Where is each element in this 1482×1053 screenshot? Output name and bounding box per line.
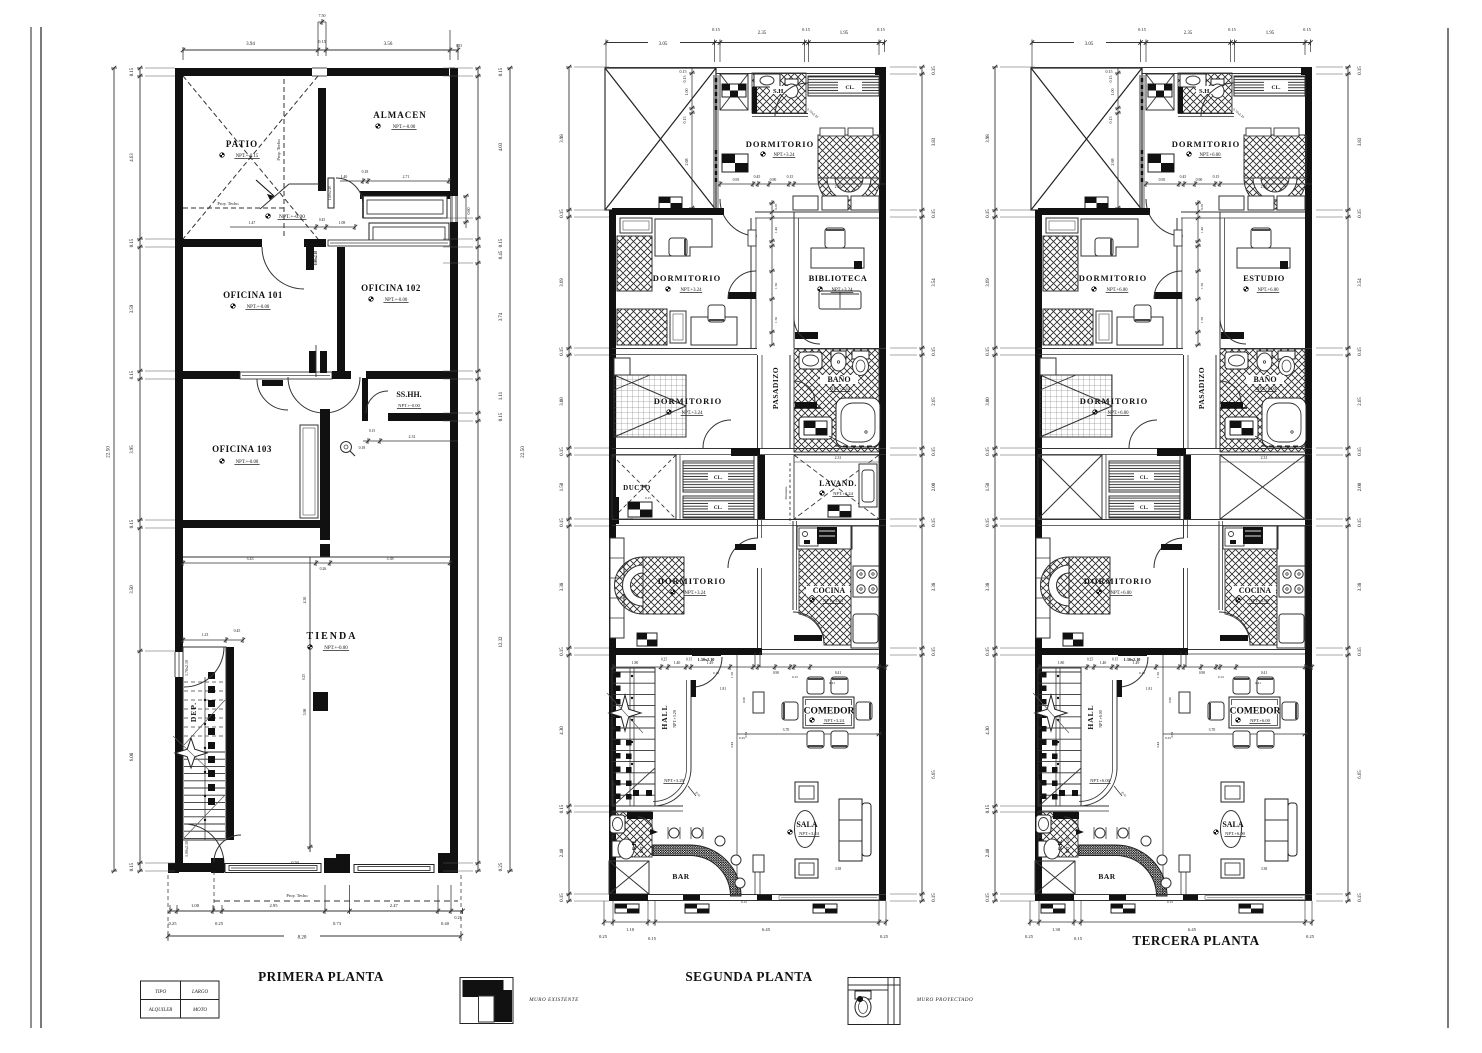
svg-text:NPT.+3.29: NPT.+3.29 [672,710,677,728]
sh bottom label door [627,812,653,819]
svg-text:SEGUNDA PLANTA: SEGUNDA PLANTA [685,969,812,984]
dorm4 door label [1161,544,1182,550]
svg-text:0.15: 0.15 [318,39,325,44]
dim stair top [183,639,243,641]
svg-text:6.08: 6.08 [130,752,135,761]
comedor chairs [807,677,824,694]
cocina door arc [1219,612,1250,643]
svg-text:PATIO: PATIO [226,139,258,149]
svg-text:S.H.: S.H. [632,839,638,851]
svg-text:7.50: 7.50 [319,13,326,18]
svg-text:1.50: 1.50 [1200,283,1204,289]
biblioteca door sill [795,332,818,339]
svg-text:3.38: 3.38 [560,582,565,591]
interior dim chain x-void [691,68,693,210]
closet right wall [1179,455,1181,519]
svg-text:0.73: 0.73 [333,921,342,926]
dorm4 closet left [610,538,624,638]
svg-text:DEP.: DEP. [189,702,198,722]
left dim chain plan1 [139,68,141,871]
wall left thin upper [604,68,606,210]
svg-text:CL.: CL. [1271,85,1281,91]
svg-text:2.68: 2.68 [684,159,689,166]
door arc ss hh [366,391,388,413]
svg-text:0.15: 0.15 [986,518,991,527]
svg-text:PASADIZO: PASADIZO [1197,367,1206,409]
dorm3 right wall / corridor left lower [757,355,759,448]
x-void box top-left [605,68,716,210]
svg-text:0.15: 0.15 [645,496,651,500]
S.H. floor hatch [1178,73,1232,113]
svg-text:0.15: 0.15 [560,518,565,527]
top dim chain plan1 [183,49,458,51]
svg-text:3.00: 3.00 [560,397,565,406]
wall central vertical tienda [320,409,330,540]
svg-text:CL.: CL. [714,476,723,481]
legend muro proyectado icon [848,978,900,1025]
svg-text:ALMACEN: ALMACEN [373,110,427,120]
bano door arc [1220,381,1241,402]
hall curved wall [1112,680,1114,768]
svg-text:0.18: 0.18 [1139,671,1145,675]
svg-text:0.15: 0.15 [1358,647,1363,656]
wall top exterior [175,68,312,76]
svg-text:3.00: 3.00 [986,397,991,406]
svg-text:3.54: 3.54 [1358,278,1363,287]
door sill bottom entry [211,858,224,873]
desk dormitorio top [722,154,748,172]
svg-text:3.38: 3.38 [1261,867,1267,871]
stair diagonal flight lines [184,700,225,745]
dim chain hall top [1039,666,1312,668]
svg-text:0.15: 0.15 [1213,175,1220,179]
wall left thin upper [1030,68,1032,210]
dorm3 right wall / corridor left lower [1183,355,1185,448]
svg-text:0.15: 0.15 [560,209,565,218]
wall E door sill [692,650,721,656]
spine wall lower [1184,455,1191,519]
wall right exterior [879,67,886,901]
svg-text:1.50: 1.50 [774,317,778,323]
door arc oficina103 [257,379,288,410]
svg-text:1.10: 1.10 [626,927,635,932]
dorm3 headboard [1040,358,1056,375]
sala center table [1221,811,1242,848]
closet door leaf oficina103 [300,425,318,518]
bano sink [799,352,822,369]
wall oficinas bottom left [175,371,240,379]
bed pillows [1246,128,1271,136]
svg-text:NPT.+-0.00: NPT.+-0.00 [398,403,420,408]
north star [1035,695,1067,731]
svg-text:1.70x2.10: 1.70x2.10 [184,660,189,676]
svg-text:MOTO: MOTO [192,1008,207,1013]
stair star symbol [175,738,207,768]
svg-text:3.38: 3.38 [986,582,991,591]
svg-text:2.95: 2.95 [269,903,278,908]
svg-text:2.71: 2.71 [403,175,410,179]
cocina top counter [1223,526,1278,549]
svg-text:NPT.+6.00: NPT.+6.00 [1250,718,1270,723]
hall wall stub black [1117,680,1122,697]
wall oficinas bottom center [332,371,351,379]
corridor right wall lower [789,355,791,448]
svg-text:0.95: 0.95 [1159,178,1166,182]
right overall dim 22.50 [509,68,511,871]
S.H. label [1196,86,1214,94]
right wall window notch [451,196,458,222]
top dim chain [1032,42,1074,44]
svg-text:DORMITORIO: DORMITORIO [1172,139,1240,149]
bano floor hatch [1220,349,1305,452]
svg-text:2.47: 2.47 [390,903,399,908]
tienda center line [309,557,311,852]
svg-text:0.15: 0.15 [130,370,135,379]
svg-text:DUCTO: DUCTO [623,484,651,492]
svg-text:LAVAND.: LAVAND. [819,479,857,488]
label BANO [820,375,858,384]
svg-text:COCINA: COCINA [813,586,846,595]
svg-text:0.15: 0.15 [369,429,375,433]
bottom pier markers [615,904,639,913]
svg-text:1.23: 1.23 [202,633,209,637]
svg-text:0.15: 0.15 [682,76,687,83]
closet CL mid lower [1109,496,1180,518]
svg-text:0.15: 0.15 [1108,117,1113,124]
svg-text:PASADIZO: PASADIZO [771,367,780,409]
svg-text:HALL: HALL [1086,704,1095,729]
svg-text:Proy. Techo: Proy. Techo [217,201,239,206]
svg-text:0.45: 0.45 [319,218,325,222]
svg-text:NPT.+6.00: NPT.+6.00 [1090,778,1110,783]
svg-text:NPT.+3.24: NPT.+3.24 [823,598,843,603]
cocina stove [1279,566,1305,597]
svg-text:DORMITORIO: DORMITORIO [658,576,726,586]
svg-text:0.45: 0.45 [499,250,504,259]
window box almacen 2 [369,223,449,245]
wall left exterior [175,68,183,652]
svg-text:4.30: 4.30 [986,726,991,735]
entry door arc 2 [214,835,241,862]
svg-text:LARGO: LARGO [191,990,209,995]
svg-text:0.90: 0.90 [1199,671,1205,675]
svg-text:2.40: 2.40 [835,185,842,189]
bano shower glass dashed [1261,445,1303,447]
door arc almacen [328,178,334,208]
S.H. counter and sink [754,74,780,87]
svg-text:0.96: 0.96 [742,697,746,703]
svg-text:3.69: 3.69 [560,278,565,287]
patio dashed proy techo vertical [283,79,285,239]
svg-text:3.38: 3.38 [932,582,937,591]
dim chain hall top [613,666,886,668]
interior dim chain x-void [1117,68,1119,210]
svg-text:1.80: 1.80 [632,661,639,665]
svg-text:3.50: 3.50 [130,585,135,594]
x-void table [1085,197,1108,209]
svg-text:PRIMERA PLANTA: PRIMERA PLANTA [258,969,384,984]
closet CL mid lower [683,496,754,518]
label COCINA [806,586,850,595]
sala sofa [839,799,862,861]
dorm3 bed [1040,375,1112,437]
cocina door arc [793,612,824,643]
stair treads lower [184,751,225,753]
svg-text:0.15: 0.15 [456,44,462,48]
svg-text:2.31: 2.31 [1261,456,1268,460]
cocina floor hatch [1225,549,1277,645]
comedor table [1229,697,1280,728]
x-box below sh [1035,861,1075,894]
svg-text:0.15: 0.15 [560,893,565,902]
svg-text:1.40: 1.40 [674,661,681,665]
S.H. door arc [1201,83,1234,116]
svg-text:OFICINA 101: OFICINA 101 [223,290,283,300]
svg-text:0.26: 0.26 [320,567,327,571]
sala center table [795,811,816,848]
dorm2 bed2 hatch [617,309,667,345]
sh bottom toilet [1038,841,1046,857]
cocina right counter [851,526,879,648]
svg-text:SALA: SALA [1222,820,1244,829]
column marker sala [1179,855,1190,872]
S.H. floor hatch [752,73,806,113]
svg-text:0.40: 0.40 [441,921,450,926]
top dim chain [606,42,648,44]
wall D thin [612,519,886,521]
svg-text:3.05: 3.05 [659,42,668,47]
column marker sala [753,855,764,872]
svg-text:0.41: 0.41 [835,671,841,675]
bottom dim chain [1030,921,1312,923]
tienda center pier [313,692,328,711]
S.H. toilet [785,79,798,85]
svg-text:0.25: 0.25 [1306,934,1315,939]
corridor dim chain [1197,200,1199,345]
dorm2 chair [669,238,687,256]
svg-text:1.50: 1.50 [560,482,565,491]
door arc dormitorio2 top [1146,199,1183,236]
sh bottom floor hatch [612,812,652,857]
dorm2 closet panel [670,311,686,343]
dorm2 desk [655,219,712,256]
stair center rail [204,677,206,840]
stair center rail hall [629,668,631,806]
x-void box top-left [1031,68,1142,210]
bano washer [799,417,832,439]
svg-text:0.25: 0.25 [1025,934,1034,939]
wall x-void right / dormitorio left [1139,75,1141,210]
S.H. door arc [775,83,808,116]
divider comedor sala line [1162,655,1164,894]
door label oficina103 [262,380,283,386]
stair posts hall [615,672,621,678]
double door arcs to tienda hall [288,377,360,413]
svg-text:DORMITORIO: DORMITORIO [654,396,722,406]
svg-text:1.11: 1.11 [499,391,504,400]
bano bidet [1257,351,1272,359]
cocina bottom black bar [1220,635,1248,641]
svg-text:3.98: 3.98 [303,709,307,716]
svg-text:0.25: 0.25 [661,658,667,662]
svg-text:NPT.+3.24: NPT.+3.24 [799,831,819,836]
wall F thin [612,805,683,807]
tienda ceiling line [183,556,450,558]
corridor right wall lower [1215,355,1217,448]
svg-text:0.15: 0.15 [1228,27,1236,32]
svg-text:0.15: 0.15 [1303,27,1311,32]
svg-text:0.95: 0.95 [733,178,740,182]
dorm2 pillow [1046,218,1078,233]
biblioteca door sill [1221,332,1244,339]
svg-text:3.98: 3.98 [986,134,991,143]
svg-text:BIBLIOTECA: BIBLIOTECA [809,273,868,283]
svg-text:DORMITORIO: DORMITORIO [1080,396,1148,406]
bottom dim chain [604,921,886,923]
patio roof slope arrow [256,180,274,196]
svg-text:3.59: 3.59 [130,304,135,313]
svg-text:3.38: 3.38 [387,556,394,561]
sh bottom sink [610,815,625,833]
svg-text:0.41: 0.41 [829,681,835,685]
patio corner chamfer [260,184,289,209]
svg-text:1.50: 1.50 [1200,317,1204,323]
right dim chain plan1 [477,68,479,871]
bano toilet [852,351,869,359]
dorm3 bed [614,375,686,437]
closet CL mid upper [1109,461,1180,492]
dorm2 chair2 [708,305,725,322]
cocina fridge [1279,614,1304,643]
svg-text:0.25: 0.25 [1165,736,1171,740]
interior dim chain dormitorio top [720,183,886,185]
svg-text:3.43: 3.43 [247,556,254,561]
wall divider patio almacen [318,88,326,191]
hall curved wall [686,680,688,768]
wall C thin [1038,448,1312,450]
lavand room [1220,455,1305,519]
bottom wall right pier [438,853,458,873]
stair door top arc [184,647,224,687]
svg-text:2.40: 2.40 [560,848,565,857]
legend table [141,981,220,1018]
svg-text:2.40: 2.40 [1261,185,1268,189]
stair treads hall [1039,671,1081,673]
dresser with X [1146,74,1174,110]
stair treads dashed upper [184,681,225,683]
svg-text:3.69: 3.69 [986,278,991,287]
window box almacen 1 [363,196,447,218]
window band oficina103 top [240,372,332,379]
svg-text:MURO EXISTENTE: MURO EXISTENTE [528,997,579,1003]
wall right exterior [1305,67,1312,901]
svg-text:1.00: 1.00 [684,89,689,96]
dim corridor [230,226,355,228]
svg-text:ESTUDIO: ESTUDIO [1243,273,1285,283]
stair diagonals hall [1039,768,1081,806]
svg-text:0.15: 0.15 [1108,76,1113,83]
stair boundary [183,647,226,840]
svg-text:6.45: 6.45 [1188,927,1197,932]
sheet border right line [1447,28,1449,1028]
north star [609,695,641,731]
cocina right counter [1277,526,1305,648]
svg-text:CL.: CL. [1140,506,1149,511]
bano toilet [1278,351,1295,359]
cocina bottom black bar [794,635,822,641]
svg-text:0.15: 0.15 [986,647,991,656]
svg-text:OFICINA 103: OFICINA 103 [212,444,272,454]
svg-text:0.50: 0.50 [291,860,298,865]
svg-text:3.95: 3.95 [130,445,135,454]
svg-text:2.00: 2.00 [932,482,937,491]
cocina left wall [1218,521,1220,610]
svg-text:0.15: 0.15 [499,412,504,421]
biblioteca walls [793,212,795,348]
svg-text:0.15: 0.15 [986,209,991,218]
stair door bottom arc [184,824,224,864]
bano door label [1221,402,1243,408]
biblioteca sofa [819,291,861,309]
corridor wall left [750,218,752,348]
dorm2 door sill [1154,292,1182,299]
stair boundary hall [1038,668,1081,806]
svg-text:0.15: 0.15 [1106,69,1113,74]
window left stair [174,652,176,677]
svg-text:COCINA: COCINA [1239,586,1272,595]
x-box below sh [609,861,649,894]
dorm2 chair2 [1134,305,1151,322]
svg-text:1.00x2.10: 1.00x2.10 [184,841,189,857]
door label oficina101 [306,247,314,270]
svg-text:1.95: 1.95 [840,31,849,36]
svg-text:2.35: 2.35 [758,31,767,36]
svg-text:1.30: 1.30 [1052,927,1061,932]
svg-text:0.18: 0.18 [713,671,719,675]
wall left exterior [609,210,616,901]
svg-text:0.15: 0.15 [932,209,937,218]
svg-text:0.15: 0.15 [877,27,885,32]
svg-text:2.31: 2.31 [835,456,842,460]
svg-text:8.20: 8.20 [298,936,307,941]
wall E thick [1035,648,1188,655]
S.H. label [770,86,788,94]
svg-text:0.15: 0.15 [1358,447,1363,456]
bar stools [1095,828,1105,838]
svg-text:NPT.+3.29: NPT.+3.29 [664,778,684,783]
svg-text:HALL: HALL [660,704,669,729]
right dim chain [921,67,923,901]
bottom overall dim 8.20 [168,935,284,937]
svg-text:0.25: 0.25 [168,921,177,926]
dorm3 door arc [1129,420,1157,448]
stair posts [208,672,215,679]
label COMEDOR [1231,705,1279,714]
sh bottom floor hatch [1038,812,1078,857]
svg-text:1.40: 1.40 [1200,227,1204,233]
patio dashed proy techo horizontal [183,207,284,209]
x-void table [659,197,682,209]
cocina left wall [792,521,794,610]
nightstands below bed [793,196,818,210]
dorm4 bed [643,557,684,614]
svg-text:0.90: 0.90 [1196,178,1203,182]
hall door arc [1118,657,1148,687]
svg-text:NPT.+6.00: NPT.+6.00 [1098,710,1103,728]
window band below corridor [328,240,450,246]
sheet border left double line [30,27,32,1028]
wall right exterior [450,68,458,871]
